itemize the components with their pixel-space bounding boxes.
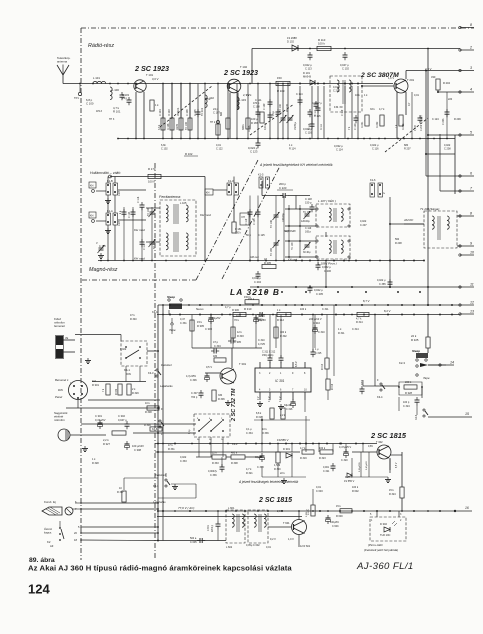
- svg-text:2 SC 732 TM: 2 SC 732 TM: [231, 388, 237, 422]
- telescopic antenna: [57, 65, 69, 84]
- svg-text:8: 8: [470, 23, 472, 27]
- capacitor C202: [418, 115, 423, 123]
- label KH mod 1: [134, 228, 145, 232]
- terminal 8 top: [459, 23, 474, 29]
- uzemi wire 5: [81, 526, 158, 528]
- label C118: [305, 197, 312, 201]
- label C116 lower: [303, 127, 312, 131]
- label L100: [112, 88, 119, 92]
- svg-text:330: 330: [431, 75, 436, 79]
- label K2: [47, 540, 51, 544]
- label R205: [264, 257, 267, 261]
- label TC165: [270, 247, 273, 256]
- voltage 0.8V: [368, 445, 373, 448]
- svg-text:0,01 μ: 0,01 μ: [264, 123, 267, 130]
- resistor R327: [112, 431, 126, 435]
- label C309 value: [258, 319, 266, 322]
- resistor R333: [212, 455, 226, 459]
- svg-text:C 316: C 316: [286, 408, 293, 411]
- svg-text:K2: K2: [47, 540, 51, 544]
- label R109: [277, 89, 285, 93]
- voltage 8.2V: [384, 309, 391, 313]
- label C365b: [379, 283, 386, 286]
- electrolytic C309: [254, 315, 259, 324]
- T103 base wire: [362, 85, 394, 87]
- L108 feed upper: [285, 240, 316, 242]
- label FM KF: [334, 105, 343, 109]
- switch box K4-1: [121, 341, 147, 366]
- svg-text:L 108 ( Piros ): L 108 ( Piros ): [318, 262, 337, 266]
- resistor R204: [436, 79, 440, 90]
- magno rail bottom join: [162, 517, 164, 541]
- svg-text:TC 104: TC 104: [147, 207, 150, 216]
- C324 drop: [416, 405, 418, 415]
- label HH: [206, 192, 210, 195]
- label R330b: [234, 318, 240, 322]
- radio/magno separator diagonal 2: [222, 166, 280, 279]
- svg-text:2 SC 1923: 2 SC 1923: [134, 64, 169, 73]
- capacitor C302: [125, 421, 130, 429]
- label 15k R600: [336, 505, 341, 508]
- C313 riser: [261, 466, 263, 477]
- resistor R330: [233, 312, 246, 316]
- label texture 19 220: [448, 98, 453, 101]
- svg-text:100 k: 100 k: [319, 447, 326, 450]
- label Bemenet 1: [55, 378, 69, 382]
- junction dots record bus extra: [261, 419, 307, 445]
- label R316: [332, 383, 334, 390]
- label 2200p vert: [212, 524, 214, 532]
- K1-6 drop: [389, 197, 391, 287]
- L601 secondary coil: [242, 514, 244, 527]
- osc column x284: [283, 196, 285, 261]
- IC301 top pin 8: [304, 362, 306, 368]
- capacitor C120: [354, 115, 359, 123]
- svg-text:7: 7: [470, 187, 473, 191]
- label texture 58 47 k: [130, 314, 135, 317]
- ferrite coil lower left: [166, 233, 168, 250]
- svg-text:V: V: [383, 192, 386, 194]
- label R109 value: [277, 76, 282, 80]
- label R334: [231, 462, 238, 465]
- switch top bus: [81, 423, 196, 425]
- trimmer TC165: [273, 240, 280, 248]
- KH input upper: [89, 182, 96, 192]
- svg-text:R 202: R 202: [376, 121, 379, 128]
- inductor L101: [93, 81, 106, 83]
- L107 coil left: [329, 208, 331, 221]
- trimmer column drop x152: [151, 207, 153, 261]
- IF transformer L107 box: [316, 204, 350, 227]
- LED box riser 2: [398, 511, 400, 517]
- svg-text:C 207: C 207: [360, 224, 367, 227]
- svg-text:1,0 V: 1,0 V: [288, 538, 294, 541]
- svg-text:150: 150: [277, 76, 282, 80]
- label R312b: [277, 318, 284, 322]
- junction dots IF bus more: [249, 260, 425, 262]
- label R323: [319, 457, 326, 460]
- svg-text:100 μ/10V: 100 μ/10V: [132, 444, 144, 448]
- label C114 under bus: [334, 144, 343, 148]
- svg-text:R 310: R 310: [244, 307, 252, 311]
- svg-text:150p 200p: 150p 200p: [262, 354, 274, 357]
- svg-text:R 308: R 308: [145, 411, 152, 414]
- voltage 8.7V row12: [363, 299, 370, 303]
- ferrite bottom bus: [98, 260, 243, 262]
- svg-text:R 340: R 340: [130, 318, 137, 321]
- svg-text:C 124: C 124: [128, 211, 131, 218]
- record bus drop x306: [305, 444, 307, 453]
- svg-text:220 k: 220 k: [235, 232, 242, 235]
- record bus drop x333: [332, 444, 334, 453]
- svg-text:A jelzett feszültségek felv: A jelzett feszültségek felvételnél mérhe…: [238, 480, 299, 484]
- svg-text:R 203: R 203: [402, 123, 405, 130]
- svg-text:0,047 μ: 0,047 μ: [340, 63, 349, 67]
- svg-text:1: 1: [371, 519, 373, 522]
- label C106: [186, 109, 189, 116]
- label C301 value: [95, 418, 106, 422]
- junction dots left rail magno: [157, 350, 164, 541]
- svg-text:Az Akai AJ 360 H típusú rádió-: Az Akai AJ 360 H típusú rádió-magnó áram…: [28, 564, 292, 573]
- label texture 37 R 311: [338, 332, 345, 335]
- svg-text:R 205: R 205: [264, 261, 271, 265]
- label C60Cb: [332, 525, 339, 528]
- svg-text:5e: 5e: [197, 439, 200, 441]
- label 2.2k: [280, 414, 286, 417]
- svg-text:165 p: 165 p: [305, 231, 312, 234]
- label R165: [251, 117, 258, 121]
- svg-text:56 p: 56 p: [246, 234, 251, 237]
- label R303: [237, 331, 242, 334]
- svg-text:C 301: C 301: [95, 414, 102, 418]
- label TLR 10C: [380, 533, 391, 537]
- switchbox drop to R row: [198, 437, 200, 457]
- svg-text:16: 16: [465, 506, 469, 510]
- svg-text:11: 11: [470, 283, 474, 287]
- trimmer TC103: [149, 239, 156, 247]
- wire column right x358: [357, 86, 359, 139]
- tape contact mid: [416, 374, 418, 376]
- label texture 20 1P13: [96, 110, 102, 113]
- test point TP1: [78, 84, 81, 96]
- ground below VC103: [98, 253, 104, 259]
- svg-text:2200 p: 2200 p: [212, 524, 214, 532]
- L10x left col b: [299, 205, 301, 257]
- label R307b: [117, 491, 124, 494]
- svg-text:L 100: L 100: [112, 88, 119, 92]
- terminal 2: [459, 46, 474, 52]
- switch K1-B upper: [106, 183, 118, 195]
- label texture 13 2,2 k: [246, 94, 252, 97]
- label R303b: [237, 335, 244, 338]
- label R181b: [235, 232, 242, 235]
- label C301: [95, 414, 102, 418]
- svg-text:0,47μ/6V: 0,47μ/6V: [366, 461, 368, 470]
- label R600: [336, 515, 343, 518]
- svg-text:K3-6: K3-6: [152, 428, 158, 431]
- label L103: [239, 98, 246, 102]
- label col kp: [119, 210, 122, 214]
- KH top wire: [110, 176, 205, 178]
- IC IC301 body: [255, 368, 311, 392]
- head pin stubs: [73, 502, 82, 510]
- osc column x250: [249, 196, 251, 261]
- switchbox drop c: [222, 437, 224, 457]
- svg-text:0,01: 0,01: [414, 94, 419, 97]
- label 2 SC 1815 right: [370, 431, 407, 440]
- label texture 50 0,01: [316, 486, 321, 489]
- capacitor C123: [256, 140, 261, 148]
- voltage 2.2V vertical: [420, 115, 423, 122]
- label C110 rot: [308, 123, 311, 130]
- svg-text:T 302: T 302: [376, 440, 383, 444]
- voltage 2.9V: [425, 67, 432, 71]
- capacitor C365: [388, 279, 393, 287]
- R325 riser: [427, 315, 429, 338]
- label texture 9 R 207: [404, 148, 411, 151]
- switch K3-6: [159, 420, 164, 428]
- ferrite coil upper left: [166, 205, 168, 222]
- svg-text:C 303: C 303: [205, 327, 212, 331]
- svg-text:2: 2: [400, 519, 402, 522]
- capacitor C206: [316, 262, 321, 270]
- label texture 24 30 p: [284, 230, 289, 233]
- label R103: [168, 109, 171, 116]
- label KH box right: [242, 216, 246, 219]
- svg-text:7 k: 7 k: [348, 126, 351, 130]
- label antenna line2: [57, 60, 68, 64]
- svg-text:560: 560: [395, 238, 400, 241]
- label C205b: [316, 292, 323, 296]
- resistor/part R103: [170, 118, 174, 130]
- label 165p: [305, 231, 312, 234]
- magno left rail A: [157, 305, 159, 540]
- label texture 46 C 333: [180, 460, 187, 463]
- label texture 43 47 k: [168, 444, 173, 447]
- label TC102: [279, 103, 282, 112]
- uzemi wire 20: [81, 532, 158, 534]
- electrolytic C306: [205, 373, 210, 382]
- resistor R113: [226, 118, 230, 129]
- capacitor C102 on bus: [343, 52, 348, 60]
- svg-text:33μ/8V: 33μ/8V: [255, 456, 263, 459]
- svg-text:Rádió-rész: Rádió-rész: [88, 43, 114, 49]
- svg-text:R 101: R 101: [113, 110, 121, 114]
- capacitor C324: [415, 397, 420, 405]
- transistor T302: [377, 445, 391, 459]
- mic line to switchbox: [133, 432, 196, 434]
- resistor R302: [274, 327, 278, 338]
- capacitor C105 osc: [256, 209, 261, 217]
- svg-text:100 k: 100 k: [148, 180, 155, 184]
- L108 core 2: [334, 240, 336, 254]
- svg-text:R 109: R 109: [277, 89, 285, 93]
- label R317: [256, 412, 262, 415]
- K4-1 out wire: [147, 350, 157, 352]
- lejatszas wire: [158, 497, 196, 499]
- junction dots bus 443 extra: [174, 443, 357, 445]
- chassis boundary left edge: [80, 28, 82, 560]
- switch K2-4 sleep: [168, 299, 182, 309]
- R313 drop: [326, 369, 328, 379]
- svg-text:0,47: 0,47: [180, 318, 185, 321]
- trimmer-ferrite link 1: [146, 207, 160, 209]
- svg-text:0,01: 0,01: [316, 486, 321, 489]
- terminal 14 wire ext: [428, 364, 446, 366]
- junction dots power bus: [162, 510, 429, 512]
- label 32k: [212, 452, 217, 455]
- K4-1 drop a: [125, 366, 127, 382]
- terminal 8b: [459, 212, 474, 218]
- svg-text:LA 3210 B: LA 3210 B: [230, 287, 280, 297]
- label K3-5: [415, 414, 418, 420]
- svg-text:100μ/6V: 100μ/6V: [330, 521, 339, 524]
- K3-4 rail: [374, 315, 376, 387]
- ground T302: [385, 477, 391, 483]
- column x412: [411, 92, 413, 139]
- R204 bottom to terminal 4 wire: [437, 90, 439, 92]
- L107 core 2: [334, 208, 336, 222]
- capacitor C312: [279, 355, 284, 363]
- capacitor C601: [216, 521, 221, 529]
- voltage 2.7V: [243, 93, 250, 97]
- FM IF transformer T101 box: [330, 76, 362, 112]
- svg-text:C 124: C 124: [432, 118, 439, 121]
- junction dots R328: [398, 386, 423, 388]
- collector wire to terminal 3: [406, 70, 460, 72]
- svg-text:MA9-B: MA9-B: [303, 75, 311, 79]
- radio/magno separator horizontal: [82, 279, 196, 281]
- label K1-B: [107, 179, 113, 183]
- label K1-3: [228, 179, 234, 183]
- svg-text:C 170: C 170: [99, 245, 106, 248]
- L108 coil left: [329, 240, 331, 253]
- svg-text:220 μ/10 V: 220 μ/10 V: [309, 317, 322, 321]
- svg-text:0,1 μ: 0,1 μ: [246, 428, 252, 431]
- trimmer TC102: [280, 115, 287, 123]
- svg-text:C 313: C 313: [257, 466, 264, 469]
- junction dots L10x: [288, 208, 301, 258]
- label C124: [128, 211, 131, 218]
- svg-text:4,7/25: 4,7/25: [258, 343, 266, 346]
- voltage 6.5V: [396, 462, 398, 468]
- svg-text:10: 10: [304, 389, 307, 392]
- sleep drop to rail: [168, 310, 170, 315]
- capacitor C203: [445, 109, 450, 117]
- page number 124: [28, 582, 50, 597]
- label URH lower: [118, 221, 121, 226]
- switch K1-6: [370, 183, 383, 197]
- resistor R320: [276, 452, 280, 463]
- svg-text:2 SC 1923: 2 SC 1923: [223, 68, 258, 77]
- label texture 40 C 334: [246, 432, 253, 435]
- svg-text:2 k: 2 k: [132, 388, 136, 391]
- label C117r rot: [314, 109, 317, 116]
- svg-text:C 307: C 307: [191, 392, 198, 395]
- switch K3-4: [380, 383, 385, 391]
- label 2 SC 1923 (T102): [223, 68, 258, 77]
- svg-text:R 327: R 327: [103, 442, 110, 446]
- label 2 SC 3807M: [360, 72, 399, 79]
- label TC106: [292, 242, 294, 250]
- label R310 value: [244, 295, 251, 299]
- T103 collector riser: [405, 71, 407, 80]
- label elektret: [54, 415, 63, 419]
- junction dots supply bus: [297, 48, 429, 50]
- R313 riser col: [326, 315, 328, 359]
- switch K1-3: [227, 183, 239, 195]
- label R304: [213, 355, 218, 358]
- label C105 rot: [194, 109, 197, 116]
- T1-201 core: [438, 216, 440, 240]
- svg-text:150 p: 150 p: [305, 201, 312, 205]
- svg-text:5: 5: [269, 389, 271, 392]
- svg-text:TC 106: TC 106: [292, 242, 294, 250]
- electrolytic C301: [98, 420, 103, 429]
- label C317 vert: [359, 461, 361, 472]
- label R202: [376, 121, 379, 128]
- label C117: [143, 243, 146, 250]
- voltage 2.8V: [277, 510, 283, 513]
- IC301 top pin number 3: [259, 372, 261, 375]
- R316 riser col: [333, 305, 335, 376]
- label D102: [287, 36, 297, 40]
- D303 drop: [351, 458, 353, 473]
- resistor R112: [216, 124, 220, 135]
- label C313: [257, 466, 264, 469]
- tape contact: [171, 323, 173, 325]
- svg-text:4,7μ/25V: 4,7μ/25V: [186, 375, 196, 378]
- switch K3-1: [165, 479, 170, 487]
- label C103: [122, 93, 129, 97]
- label K2-3: [399, 361, 405, 365]
- T101 core lines: [343, 80, 345, 104]
- label texture 2 0,01: [216, 144, 221, 147]
- bus drop C123: [257, 139, 259, 144]
- svg-text:100 p: 100 p: [403, 401, 410, 404]
- inductor L103: [237, 97, 239, 110]
- right bus vertical B: [427, 49, 429, 306]
- svg-text:Lejátszás: Lejátszás: [153, 500, 166, 504]
- R307 riser: [123, 478, 125, 490]
- resistor R109: [276, 81, 290, 85]
- terminal 7: [459, 187, 474, 193]
- svg-text:2 SC 1815: 2 SC 1815: [258, 497, 292, 504]
- svg-text:C 105: C 105: [253, 218, 256, 225]
- svg-text:C 114: C 114: [336, 148, 343, 152]
- label texture 4 1 k: [289, 144, 293, 147]
- underline R102: [184, 155, 198, 157]
- svg-text:L 602: L 602: [226, 546, 233, 549]
- label C170b: [99, 245, 106, 248]
- label texture 0 6,8n: [161, 144, 166, 147]
- K1-3 drop: [233, 195, 235, 222]
- svg-text:R 207: R 207: [404, 148, 411, 151]
- AM IF transformer T1-201 box: [424, 211, 457, 248]
- label URH upper: [118, 191, 121, 196]
- svg-text:1,6 V: 1,6 V: [388, 76, 394, 80]
- label R203: [395, 124, 398, 128]
- KH box small: [205, 189, 213, 195]
- label C315b: [315, 352, 322, 355]
- resistor R110: [317, 46, 331, 50]
- label R327b: [103, 442, 110, 446]
- label 100/40u osc: [282, 213, 285, 222]
- label V C170: [96, 242, 98, 245]
- svg-text:C 104: C 104: [159, 109, 162, 116]
- svg-text:C 116: C 116: [372, 148, 379, 151]
- label texture 16 4,7 k: [379, 108, 385, 111]
